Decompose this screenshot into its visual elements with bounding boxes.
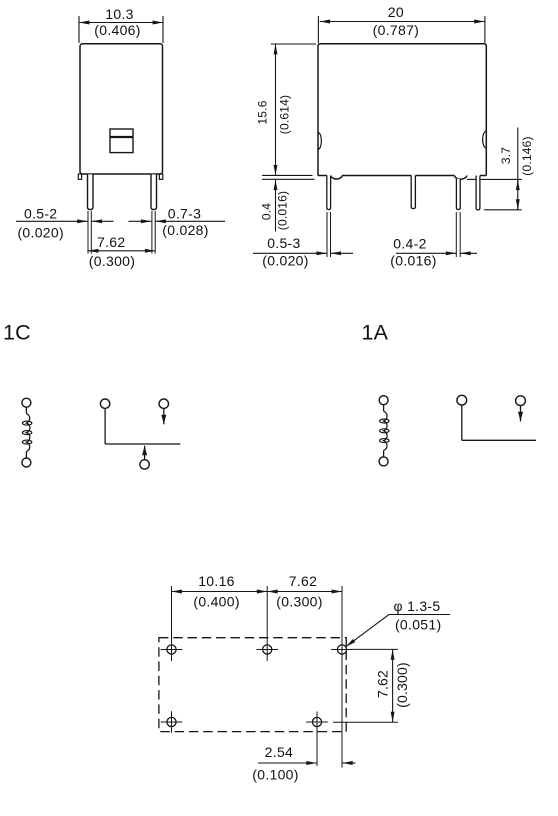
- svg-text:(0.400): (0.400): [193, 594, 239, 610]
- svg-text:(0.787): (0.787): [373, 22, 419, 38]
- svg-text:10.3: 10.3: [105, 6, 133, 22]
- svg-text:(0.051): (0.051): [395, 616, 441, 632]
- svg-text:1A: 1A: [362, 321, 389, 345]
- svg-text:(0.020): (0.020): [262, 253, 308, 269]
- svg-text:(0.300): (0.300): [276, 594, 322, 610]
- svg-text:φ 1.3-5: φ 1.3-5: [394, 598, 441, 614]
- svg-text:0.4: 0.4: [259, 203, 273, 220]
- svg-text:(0.614): (0.614): [277, 95, 291, 134]
- svg-text:0.5-2: 0.5-2: [24, 205, 57, 221]
- svg-text:(0.100): (0.100): [252, 767, 298, 783]
- svg-text:(0.300): (0.300): [89, 253, 135, 269]
- svg-text:2.54: 2.54: [265, 744, 293, 760]
- svg-text:15.6: 15.6: [255, 100, 269, 124]
- svg-text:(0.020): (0.020): [17, 225, 63, 241]
- svg-text:(0.406): (0.406): [94, 22, 140, 38]
- svg-text:20: 20: [388, 4, 404, 20]
- svg-text:0.4-2: 0.4-2: [393, 235, 426, 251]
- svg-text:7.62: 7.62: [289, 573, 317, 589]
- svg-text:(0.146): (0.146): [520, 136, 534, 175]
- svg-text:0.5-3: 0.5-3: [267, 235, 300, 251]
- svg-text:7.62: 7.62: [97, 234, 125, 250]
- svg-text:(0.016): (0.016): [276, 191, 290, 230]
- svg-text:(0.016): (0.016): [390, 252, 436, 268]
- svg-text:7.62: 7.62: [375, 670, 391, 698]
- svg-text:1C: 1C: [3, 321, 31, 345]
- svg-text:(0.300): (0.300): [394, 662, 410, 708]
- svg-text:(0.028): (0.028): [162, 222, 208, 238]
- svg-text:3.7: 3.7: [499, 147, 513, 164]
- svg-text:10.16: 10.16: [198, 573, 235, 589]
- svg-text:0.7-3: 0.7-3: [168, 206, 201, 222]
